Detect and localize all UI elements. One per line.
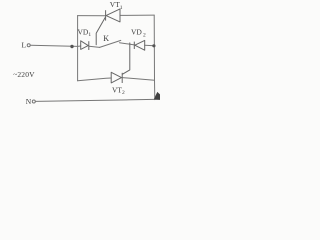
svg-text:N: N xyxy=(26,97,32,106)
svg-text:L: L xyxy=(22,41,27,50)
svg-text:K: K xyxy=(103,34,109,43)
svg-text:~220V: ~220V xyxy=(13,70,35,79)
